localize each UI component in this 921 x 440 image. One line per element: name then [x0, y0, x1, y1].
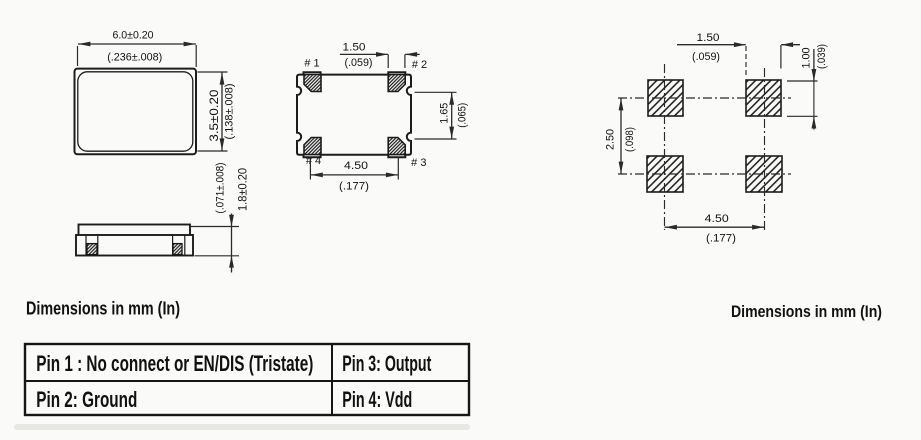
- svg-text:1.8±0.20: 1.8±0.20: [237, 168, 250, 211]
- svg-text:# 3: # 3: [411, 157, 426, 169]
- svg-text:(.059): (.059): [345, 57, 373, 69]
- svg-text:1.65: 1.65: [439, 103, 451, 124]
- svg-text:1.50: 1.50: [343, 42, 366, 54]
- svg-text:(.138±.008): (.138±.008): [224, 83, 236, 139]
- svg-text:(.236±.008): (.236±.008): [107, 52, 162, 64]
- svg-text:(.177): (.177): [339, 181, 369, 193]
- svg-text:2.50: 2.50: [605, 129, 617, 150]
- svg-text:(.059): (.059): [692, 51, 720, 63]
- svg-text:Dimensions in mm (In): Dimensions in mm (In): [26, 299, 180, 319]
- svg-text:Dimensions in mm (In): Dimensions in mm (In): [731, 302, 882, 321]
- svg-text:(.065): (.065): [457, 103, 469, 128]
- svg-text:(.098): (.098): [624, 127, 636, 152]
- svg-text:1.50: 1.50: [697, 32, 720, 44]
- svg-text:# 1: # 1: [304, 58, 319, 70]
- svg-text:(.177): (.177): [706, 233, 736, 245]
- svg-text:Pin 4: Vdd: Pin 4: Vdd: [342, 387, 412, 412]
- svg-text:1.00: 1.00: [801, 48, 813, 69]
- svg-text:# 4: # 4: [306, 155, 321, 167]
- svg-text:(.071±.008): (.071±.008): [215, 162, 227, 213]
- svg-text:3.5±0.20: 3.5±0.20: [208, 90, 221, 142]
- svg-text:Pin 2: Ground: Pin 2: Ground: [36, 387, 137, 412]
- svg-text:4.50: 4.50: [344, 160, 368, 172]
- svg-text:Pin 3: Output: Pin 3: Output: [342, 351, 431, 376]
- svg-text:Pin 1 : No connect or EN/DIS (: Pin 1 : No connect or EN/DIS (Tristate): [36, 351, 313, 376]
- svg-text:# 2: # 2: [412, 59, 427, 71]
- svg-text:(.039): (.039): [816, 44, 828, 69]
- svg-text:4.50: 4.50: [705, 213, 729, 225]
- svg-text:6.0±0.20: 6.0±0.20: [113, 30, 154, 42]
